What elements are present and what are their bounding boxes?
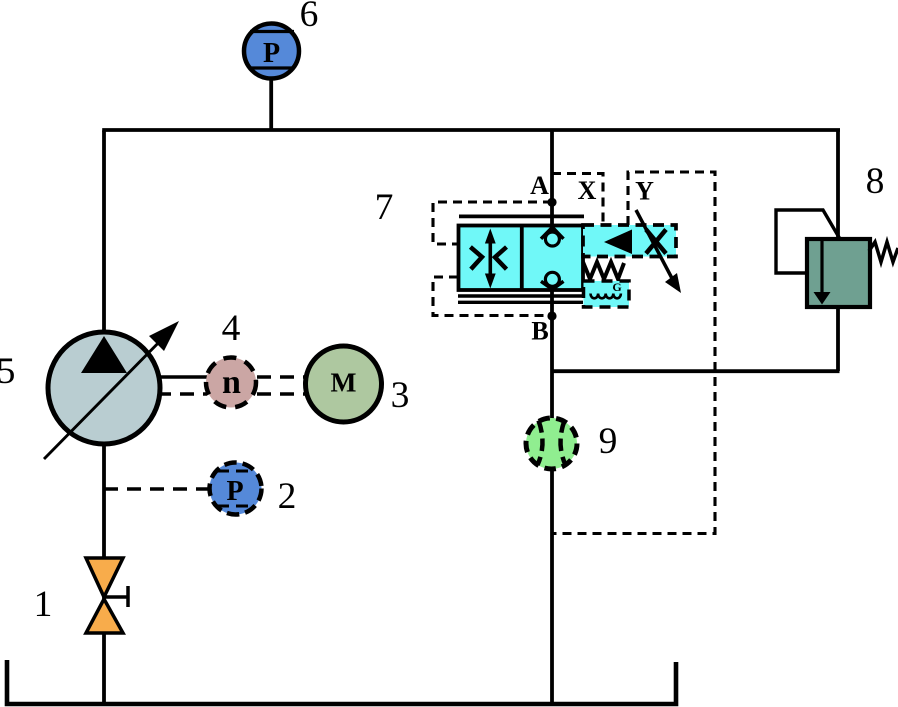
wire: n to motor dashed upper	[257, 375, 306, 379]
wire: pump to n sensor solid	[157, 375, 207, 379]
valve 7 main body	[458, 216, 584, 302]
relief valve 8	[807, 239, 898, 307]
wire: valve 7 dashed envelope top	[433, 202, 552, 244]
pressure gauge 6	[244, 24, 299, 79]
svg-text:6: 6	[300, 0, 319, 35]
bottom check: circle + chevron	[545, 272, 559, 286]
shutoff valve 1	[86, 558, 128, 633]
wire: left vertical main line	[102, 131, 106, 705]
valve 7 spring	[583, 262, 624, 279]
svg-text:9: 9	[599, 421, 618, 462]
svg-text:2: 2	[278, 476, 297, 517]
right chevron	[495, 247, 507, 269]
wire: right vertical main line	[836, 129, 840, 372]
node A	[547, 198, 556, 207]
speed sensor n (4)	[206, 358, 256, 408]
svg-text:7: 7	[375, 187, 394, 228]
svg-text:M: M	[331, 367, 357, 398]
valve 7 pilot section	[583, 210, 681, 293]
pump 5	[44, 321, 179, 459]
svg-text:5: 5	[0, 351, 15, 392]
tank	[7, 660, 676, 704]
wire: Y pilot dashed line loop	[552, 172, 715, 534]
flow meter 9	[526, 418, 577, 469]
svg-text:8: 8	[866, 161, 885, 202]
pressure gauge 2	[210, 463, 262, 515]
left cell double arrow	[488, 240, 492, 277]
svg-text:4: 4	[222, 308, 241, 349]
svg-text:A: A	[530, 171, 549, 200]
wire: gauge 6 stem	[269, 75, 273, 131]
svg-text:n: n	[222, 364, 241, 401]
svg-text:X: X	[578, 176, 597, 205]
B port stub inside body	[550, 286, 554, 291]
svg-text:P: P	[226, 476, 243, 507]
svg-text:B: B	[531, 317, 548, 346]
svg-text:G: G	[612, 280, 621, 294]
left chevron	[470, 247, 482, 269]
wire: valve A-B vertical line	[550, 130, 554, 704]
node B	[547, 311, 556, 320]
A port stub inside body	[550, 226, 554, 234]
wire: relief valve outlet horizontal	[552, 369, 840, 373]
svg-text:Y: Y	[635, 177, 654, 206]
svg-text:3: 3	[391, 375, 410, 416]
wire: pump to n sensor dashed	[157, 392, 207, 396]
svg-text:1: 1	[34, 584, 53, 625]
wire: gauge 2 dashed tap	[104, 487, 210, 491]
wire: top horizontal main line	[102, 128, 840, 132]
wire: relief valve pilot loop	[776, 210, 840, 273]
top check: chevron + circle	[541, 227, 564, 239]
svg-text:P: P	[263, 38, 280, 69]
motor M (3)	[306, 346, 382, 422]
G box (transducer)	[584, 280, 630, 307]
wire: X pilot dashed line	[552, 174, 603, 226]
proportional arrow	[636, 210, 675, 284]
wire: valve 7 dashed envelope bottom	[433, 277, 552, 316]
wire: n to motor dashed lower	[257, 392, 306, 396]
